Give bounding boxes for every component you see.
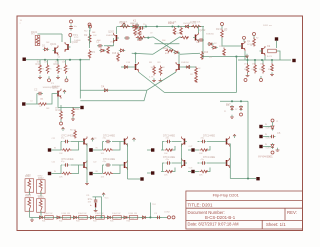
stage block right (4 stages) (161, 135, 230, 174)
label X202 value (267, 56, 272, 58)
svg-text:10u: 10u (74, 26, 77, 28)
svg-text:R4: R4 (42, 69, 44, 71)
svg-text:D104 1W: D104 1W (95, 213, 103, 215)
junction J2 (145, 25, 180, 27)
svg-text:7A: 7A (101, 85, 104, 89)
junction J3 (147, 37, 149, 39)
resistor R313 (boxed) (78, 213, 87, 219)
diode D306 (122, 216, 128, 219)
wire boxes2 (30, 210, 42, 217)
label C201 value (143, 24, 147, 26)
pad TP-B (22, 102, 25, 105)
resistor R207 (163, 48, 173, 52)
label P301 name (164, 212, 170, 214)
resistor R206 (181, 36, 189, 39)
junction J8 (100, 216, 102, 218)
svg-text:R33: R33 (260, 69, 263, 71)
capacitor C203 (198, 38, 204, 41)
title text TITLE (188, 203, 213, 208)
label rstage cap values (166, 137, 205, 161)
svg-text:R5: R5 (49, 69, 51, 71)
label R104 value (37, 62, 67, 64)
resistor R219 (201, 51, 209, 60)
svg-text:R45: R45 (110, 221, 113, 223)
pin P302 (172, 216, 175, 219)
resistor R110 (56, 108, 63, 120)
vcc VCC-S2 (133, 138, 136, 142)
svg-text:OUT1: OUT1 (266, 128, 271, 130)
junction J10 (202, 56, 204, 58)
capacitor C102 (34, 88, 43, 96)
title text REV (287, 210, 297, 215)
svg-text:4.7u: 4.7u (88, 199, 92, 201)
transistor Q205b (126, 62, 139, 72)
wire boxes1 (30, 191, 42, 196)
ground GND12 (152, 78, 156, 81)
label VY-04-5001 (258, 155, 273, 159)
diode D201 (131, 25, 137, 28)
label R207 value (165, 53, 169, 55)
label Q202 type (206, 34, 215, 36)
svg-text:C9: C9 (150, 33, 152, 35)
ground GND4 (246, 73, 250, 76)
diode D101 (42, 44, 49, 51)
wire Q201 base (116, 27, 118, 35)
title text Document Number (188, 210, 225, 215)
resistor R311 (boxed) (44, 213, 53, 219)
pad TP-K (151, 171, 154, 174)
label extras chain (42, 221, 130, 223)
component TP7A (101, 85, 109, 92)
ground GND6 (245, 54, 249, 57)
label extras q10x (46, 42, 60, 59)
svg-text:C2: C2 (34, 88, 38, 92)
wire vert 248 (247, 101, 249, 178)
svg-text:47K: 47K (165, 53, 169, 55)
pad TP-F (259, 125, 262, 128)
svg-text:5K1: 5K1 (190, 74, 193, 76)
transistor Q206b (176, 62, 190, 72)
wire core mid right (180, 36, 182, 39)
wire run H-b (80, 90, 147, 101)
junction J9 (134, 52, 136, 54)
wire V-left (139, 72, 165, 93)
stage S4 (89, 158, 127, 175)
label extras pads (266, 128, 271, 150)
wire Q205 emitter (244, 51, 246, 60)
svg-text:REV:: REV: (287, 210, 297, 215)
svg-text:R3: R3 (92, 50, 96, 54)
component X201 (133, 19, 139, 30)
pin P201 (221, 23, 224, 30)
label C101 value (97, 40, 101, 42)
svg-text:104: 104 (40, 99, 43, 101)
label extras in stage (30, 99, 50, 111)
diode D207 (240, 105, 243, 111)
vcc VCC4 (102, 193, 105, 197)
label extras tr cluster (224, 29, 258, 48)
stage S5 (0, 0, 1, 1)
svg-text:R12: R12 (84, 31, 87, 33)
svg-text:104: 104 (47, 217, 50, 219)
pad TP-H (259, 145, 262, 148)
title text Flip-Flop D201 (213, 192, 240, 197)
svg-text:SS8050: SS8050 (52, 86, 61, 88)
svg-text:B-CS-D201-B-1: B-CS-D201-B-1 (205, 215, 236, 220)
label Q102 type (74, 37, 81, 42)
svg-text:D104 1W: D104 1W (62, 213, 70, 215)
svg-text:Q2: Q2 (58, 57, 61, 59)
resistor R211 (253, 38, 256, 47)
vcc VCC-R2 (0, 0, 1, 1)
transistor Q202 (193, 28, 206, 43)
ground GND11 (94, 208, 98, 211)
svg-text:VCC: VCC (105, 198, 110, 200)
resistor R217 (138, 27, 141, 36)
diode D202 (184, 25, 190, 28)
resistor R112 (70, 130, 76, 139)
pin P104 (65, 76, 68, 82)
resistor R221 (195, 75, 198, 83)
svg-text:SVR1: SVR1 (26, 175, 31, 177)
svg-text:1N4148: 1N4148 (183, 23, 191, 25)
capacitor C303 (154, 213, 162, 219)
pad TP-D (275, 37, 278, 40)
wire net mid-right (203, 57, 248, 60)
resistor R303 (boxed) (25, 196, 34, 212)
svg-text:C22: C22 (93, 162, 96, 164)
transistor Q201 (108, 30, 119, 44)
diode D203 (173, 51, 179, 54)
label C301 value (88, 199, 92, 204)
capacitor C103 (69, 20, 77, 31)
svg-text:103: 103 (38, 186, 41, 188)
svg-text:R210: R210 (216, 27, 223, 31)
pin P106 (88, 23, 91, 29)
resistor R304 (boxed) (37, 197, 46, 212)
vcc VCC-R1 (233, 134, 236, 138)
ground GND2 (56, 75, 60, 78)
wire input2 (26, 103, 39, 105)
wire core mid left (144, 36, 153, 39)
label OUT pads (189, 146, 194, 170)
diode D209 (271, 143, 274, 149)
svg-text:R44: R44 (93, 221, 96, 223)
svg-text:104: 104 (81, 217, 84, 219)
wire cap lead (95, 197, 97, 198)
resistor R314 (boxed) (95, 213, 104, 219)
resistor R220 (195, 67, 202, 75)
svg-text:R6: R6 (60, 69, 62, 71)
label tr cluster (209, 43, 217, 59)
svg-text:R11: R11 (75, 107, 80, 111)
svg-text:SVR4: SVR4 (38, 196, 43, 198)
wire tr vert (222, 38, 240, 47)
svg-text:R13: R13 (70, 130, 73, 132)
svg-text:D104 1W: D104 1W (78, 213, 86, 215)
wire node bus1 (26, 59, 90, 61)
wire S-collectors (0, 0, 1, 1)
svg-text:Flip-Flop D201: Flip-Flop D201 (213, 192, 240, 197)
wire tr out (238, 59, 291, 61)
ground GND3 (71, 117, 75, 120)
pin P208 (243, 36, 246, 42)
resistor R202 (190, 21, 201, 28)
label extras pin tl (51, 82, 68, 86)
wire bus drops right (248, 60, 273, 64)
pad TP-M (256, 177, 259, 180)
wire Q205b base (121, 66, 133, 68)
label Q103 type (52, 86, 61, 88)
svg-text:SS8050: SS8050 (181, 62, 190, 64)
wire padG (263, 136, 269, 138)
pin P207 (271, 151, 274, 154)
title text Date (188, 222, 240, 227)
wire left block vert1 (86, 144, 88, 183)
svg-text:+: + (90, 203, 92, 207)
transistor Q101 (50, 42, 58, 56)
wire right block vert R (229, 144, 231, 179)
resistor R109 (38, 103, 47, 106)
pin P105 (60, 120, 63, 126)
svg-text:C5: C5 (277, 131, 281, 135)
resistor R210 (216, 27, 223, 38)
wire to padL (128, 178, 141, 180)
wire testpoint TP4 (150, 203, 156, 218)
svg-text:2SC: 2SC (110, 42, 114, 44)
label extras top r (84, 31, 96, 35)
resistor R312 (boxed) (62, 213, 71, 219)
transistor Q102 (65, 40, 79, 52)
title text doc number value (205, 215, 236, 220)
label box values (27, 185, 42, 207)
resistor R215 (271, 63, 274, 71)
svg-text:VY-04-5001: VY-04-5001 (258, 155, 273, 159)
resistor R201 (119, 21, 130, 28)
capacitor C202 (124, 36, 130, 39)
svg-text:SS8050: SS8050 (106, 35, 115, 37)
label extras 1 (37, 60, 64, 62)
wire Q206b collector (178, 54, 180, 64)
svg-text:R7: R7 (67, 69, 69, 71)
label R205 value (137, 40, 141, 42)
label R109 value (39, 106, 42, 108)
svg-text:Date: 8/27/2017 9:07:18 AM: Date: 8/27/2017 9:07:18 AM (188, 222, 240, 227)
transistor Q206 (260, 46, 266, 56)
diode D305 (106, 216, 112, 219)
pad TP-I (89, 148, 92, 151)
wire left block vert2 (127, 144, 129, 180)
svg-text:R2: R2 (256, 38, 258, 40)
svg-text:144EE: 144EE (74, 40, 81, 42)
svg-text:4: 4 (63, 60, 64, 62)
svg-text:R205: R205 (136, 32, 143, 36)
diode D205 (211, 46, 217, 49)
diode D302 (55, 216, 61, 219)
resistor R213 (254, 64, 257, 74)
svg-text:Sheet: 1/1: Sheet: 1/1 (266, 222, 286, 227)
label extras rv tl (42, 69, 70, 71)
label R203 value (168, 22, 177, 24)
svg-text:R31: R31 (244, 69, 247, 71)
pin P206 (271, 119, 274, 125)
svg-text:R42: R42 (59, 221, 62, 223)
wire X202 out (277, 51, 281, 60)
wire net X inner (154, 43, 179, 45)
diode D211 (123, 66, 129, 69)
stage S1 (cap/res/transistor) (48, 135, 87, 152)
wire Q206b base (182, 66, 197, 68)
diode D102 (99, 49, 105, 52)
wire Q206 emitter (264, 56, 266, 60)
svg-text:R302: R302 (38, 178, 44, 180)
wire chain stage top (93, 197, 102, 218)
capacitor C101 (96, 40, 103, 48)
diode D210 (119, 49, 125, 52)
diode D307 (141, 216, 147, 219)
junction J5 (246, 59, 273, 61)
label D202 value (183, 23, 191, 25)
ground GND7 (230, 115, 234, 118)
wire padD down (276, 41, 278, 48)
wire V-right (147, 72, 176, 90)
wire Q103 emitter (58, 97, 80, 108)
wire core bus left (132, 53, 153, 54)
polarized cap C302 (90, 203, 96, 208)
svg-text:R34: R34 (268, 69, 271, 71)
label extras q201 (110, 42, 200, 44)
svg-text:47K: 47K (137, 40, 141, 42)
label D201 value (131, 23, 139, 25)
wire padH (263, 146, 271, 148)
resistor R108 (107, 44, 114, 54)
label Q201 type (106, 35, 115, 37)
svg-text:C4: C4 (30, 101, 32, 103)
svg-text:C22: C22 (52, 138, 55, 140)
resistor R106 (54, 62, 60, 74)
transistor Q205 (240, 41, 251, 51)
resistor R209 (158, 62, 162, 76)
svg-text:SS8050: SS8050 (206, 34, 215, 36)
label rstage values (164, 153, 203, 177)
resistor R222 (219, 46, 225, 56)
resistor R107 (64, 64, 67, 74)
svg-text:2SC: 2SC (196, 42, 200, 44)
resistor R105 (46, 64, 49, 74)
resistor R104 (36, 62, 42, 74)
junction J6 (231, 100, 242, 102)
pin P301 (168, 216, 171, 219)
title text Sheet (266, 222, 286, 227)
label extras rv60 (244, 69, 271, 71)
svg-text:D201 rev: D201 rev (263, 24, 273, 27)
vcc VCC3 (62, 127, 65, 131)
svg-text:C22: C22 (52, 162, 55, 164)
resistor R214 (262, 64, 265, 74)
wire R110 top (61, 105, 73, 111)
svg-text:Z1: Z1 (224, 111, 226, 113)
svg-text:C22: C22 (93, 138, 96, 140)
wire Hc (220, 100, 248, 102)
pad TP-L (140, 177, 143, 180)
wire top-left collector bus (38, 34, 63, 42)
svg-text:K1: K1 (133, 19, 137, 23)
svg-text:D7: D7 (235, 109, 237, 111)
wire chain (30, 216, 169, 218)
svg-text:4.7K: 4.7K (149, 77, 154, 79)
svg-text:TP2: TP2 (64, 82, 67, 84)
schematic frame border (17, 16, 303, 231)
label D206 value (226, 104, 231, 106)
label extras boxes2 (26, 175, 42, 198)
wire run H-a2 (165, 92, 237, 94)
svg-text:D104 1W: D104 1W (44, 213, 52, 215)
label extras mid rv (151, 67, 166, 69)
wire core top bus (117, 26, 204, 28)
resistor R301 (boxed) (25, 176, 34, 192)
svg-text:Q101: Q101 (50, 42, 57, 46)
stage S2 (89, 135, 127, 152)
svg-text:C31: C31 (86, 195, 89, 197)
label R201 value (120, 22, 128, 24)
resistor R208 (149, 62, 155, 76)
label R208 value (149, 77, 154, 79)
svg-text:R43: R43 (76, 221, 79, 223)
resistor R103 (88, 50, 95, 59)
ground GND9 (85, 181, 89, 184)
svg-text:C10: C10 (176, 33, 179, 35)
svg-text:TITLE: D201: TITLE: D201 (188, 203, 213, 208)
pin P204 (260, 76, 263, 82)
component X202 (267, 44, 276, 53)
pin P103 (48, 76, 51, 82)
svg-text:R6 10K: R6 10K (193, 22, 201, 24)
svg-text:R46: R46 (127, 221, 130, 223)
wire feedback vert (235, 57, 237, 93)
wire mid col (89, 30, 91, 48)
resistor R101 (boxed) (31, 30, 40, 46)
pin P102 (89, 25, 92, 32)
junction J1 (44, 59, 81, 61)
wire padJ stub (147, 149, 151, 151)
svg-text:SVR3: SVR3 (26, 195, 31, 197)
pin P203 (244, 79, 247, 82)
label rv cluster values (244, 64, 263, 66)
vcc VCC1 (63, 90, 66, 94)
wire run H-a (80, 89, 147, 91)
wire input2b (47, 94, 56, 104)
wire W-vert-left (79, 60, 81, 99)
stage S3 (48, 158, 87, 175)
svg-text:J2: J2 (276, 121, 278, 123)
capacitor C205 (270, 131, 281, 138)
title block frame (186, 191, 303, 229)
resistor R212 (246, 64, 249, 74)
svg-text:R18: R18 (112, 53, 117, 55)
label R101 value (31, 34, 35, 36)
svg-text:104: 104 (115, 217, 118, 219)
label extras r220 (190, 74, 193, 76)
diode D206 (226, 103, 234, 111)
svg-text:TP3: TP3 (51, 83, 54, 85)
svg-text:104: 104 (64, 217, 67, 219)
wire padF (263, 126, 271, 128)
label extras d206 (224, 109, 237, 113)
label pads right values (265, 124, 268, 146)
svg-text:SVR2: SVR2 (38, 176, 43, 178)
ground GND13 (159, 78, 163, 81)
svg-text:R19: R19 (204, 52, 209, 54)
